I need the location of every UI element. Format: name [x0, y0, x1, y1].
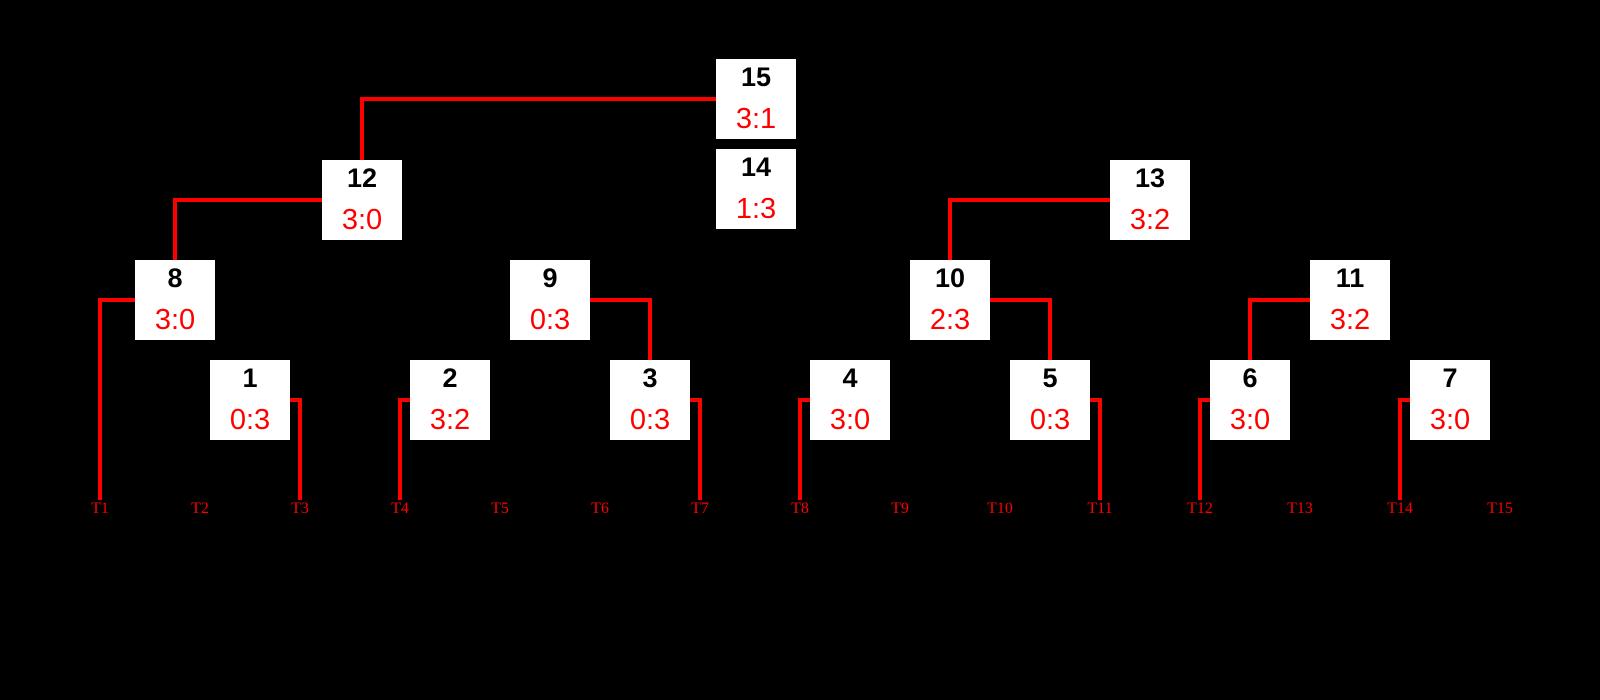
- wire 13-10 vertical: [948, 198, 952, 260]
- wire 12-8 horizontal: [173, 198, 322, 202]
- wire 6-T12 horizontal: [1198, 398, 1210, 402]
- team label T15: [1460, 501, 1540, 517]
- match box 3: [610, 360, 690, 440]
- wire 3-T7 vertical: [698, 398, 702, 500]
- team label T13: [1260, 501, 1340, 517]
- match box 10: [910, 260, 990, 340]
- wire 10-5 horizontal: [990, 298, 1052, 302]
- wire 6-T12 vertical: [1198, 398, 1202, 500]
- team label T5: [460, 501, 540, 517]
- team label T10: [960, 501, 1040, 517]
- match box 1: [210, 360, 290, 440]
- wire 7-T14 horizontal: [1398, 398, 1410, 402]
- team label T2: [160, 501, 240, 517]
- team label T9: [860, 501, 940, 517]
- wire 4-T8 horizontal: [798, 398, 810, 402]
- match box 7: [1410, 360, 1490, 440]
- team label T11: [1060, 501, 1140, 517]
- match box 6: [1210, 360, 1290, 440]
- match box 11: [1310, 260, 1390, 340]
- wire 13-10 horizontal: [948, 198, 1110, 202]
- wire 1-T3 vertical: [298, 398, 302, 500]
- wire 2-T4 horizontal: [398, 398, 410, 402]
- team label T3: [260, 501, 340, 517]
- wire 1-T3 horizontal: [290, 398, 302, 402]
- wire 2-T4 vertical: [398, 398, 402, 500]
- team label T7: [660, 501, 740, 517]
- match box 14: [716, 149, 796, 229]
- wire 8-T1 vertical: [98, 298, 102, 500]
- wire 11-6 horizontal: [1248, 298, 1310, 302]
- team label T4: [360, 501, 440, 517]
- wire 9-3 vertical: [648, 298, 652, 360]
- wire 9-3 horizontal: [590, 298, 652, 302]
- team label T12: [1160, 501, 1240, 517]
- wire 3-T7 horizontal: [690, 398, 702, 402]
- wire 12-8 vertical: [173, 198, 177, 260]
- match box 8: [135, 260, 215, 340]
- wire 10-5 vertical: [1048, 298, 1052, 360]
- match box 12: [322, 160, 402, 240]
- wire 15-12 horizontal: [360, 97, 716, 101]
- match box 4: [810, 360, 890, 440]
- wire 15-12 vertical: [360, 97, 364, 160]
- wire 7-T14 vertical: [1398, 398, 1402, 500]
- team label T14: [1360, 501, 1440, 517]
- match box 13: [1110, 160, 1190, 240]
- team label T8: [760, 501, 840, 517]
- wire 8-T1 horizontal: [98, 298, 135, 302]
- wire 5-T11 horizontal: [1090, 398, 1102, 402]
- team label T6: [560, 501, 640, 517]
- match box 5: [1010, 360, 1090, 440]
- match box 9: [510, 260, 590, 340]
- match box 2: [410, 360, 490, 440]
- wire 5-T11 vertical: [1098, 398, 1102, 500]
- wire 11-6 vertical: [1248, 298, 1252, 360]
- team label T1: [60, 501, 140, 517]
- wire 4-T8 vertical: [798, 398, 802, 500]
- match box 15: [716, 59, 796, 139]
